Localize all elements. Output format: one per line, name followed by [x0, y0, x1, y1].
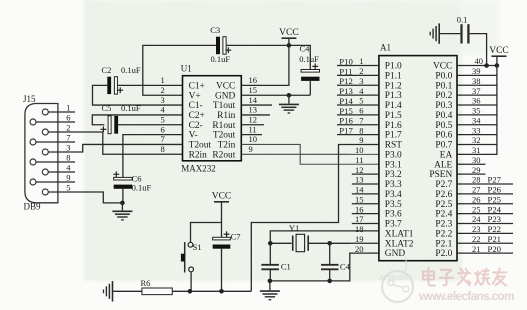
svg-text:7: 7: [359, 115, 363, 125]
svg-text:34: 34: [472, 115, 481, 125]
svg-text:7: 7: [66, 133, 70, 143]
node crystal right: [327, 241, 332, 246]
wire MAX232 pin 11 stub: [241, 134, 262, 136]
svg-text:10: 10: [355, 145, 364, 155]
svg-text:2: 2: [161, 85, 165, 95]
svg-text:P1.4: P1.4: [385, 101, 402, 111]
power VCC (reset): [212, 192, 232, 238]
svg-text:36: 36: [472, 96, 481, 106]
svg-text:5: 5: [359, 96, 363, 106]
node GND junction pin15: [287, 93, 292, 98]
wire T2in (pin10) to P3.1: [241, 144, 379, 164]
svg-text:12: 12: [249, 115, 258, 125]
svg-text:17: 17: [355, 214, 364, 224]
svg-text:P3.3: P3.3: [385, 180, 402, 190]
svg-text:R1out: R1out: [212, 121, 235, 131]
svg-text:14: 14: [249, 95, 258, 105]
svg-text:VCC: VCC: [279, 28, 299, 38]
svg-text:P14: P14: [339, 96, 353, 106]
wire MAX232 pin 12 stub: [241, 124, 264, 126]
svg-text:0.1: 0.1: [457, 15, 468, 25]
svg-text:3: 3: [161, 95, 165, 105]
node crystal left: [268, 241, 273, 246]
svg-text:P17: P17: [339, 126, 353, 136]
pin numbers A1 left: [355, 56, 364, 254]
svg-text:V-: V-: [189, 131, 198, 141]
svg-text:C4: C4: [300, 44, 311, 54]
svg-text:3: 3: [66, 143, 70, 153]
svg-text:C2+: C2+: [189, 111, 205, 121]
node C7 bottom junction: [219, 289, 224, 294]
svg-text:35: 35: [472, 106, 481, 116]
svg-text:21: 21: [472, 244, 481, 254]
svg-text:P15: P15: [339, 106, 353, 116]
svg-text:DB9: DB9: [24, 201, 42, 211]
svg-text:R1in: R1in: [217, 111, 236, 121]
pin numbers MAX232: [161, 75, 258, 154]
svg-text:ALE: ALE: [434, 160, 452, 170]
svg-text:P13: P13: [339, 86, 353, 96]
svg-text:P3.7: P3.7: [385, 220, 402, 230]
svg-text:U1: U1: [181, 63, 192, 73]
svg-text:P2.1: P2.1: [435, 239, 452, 249]
svg-text:PSEN: PSEN: [429, 170, 452, 180]
svg-text:29: 29: [472, 165, 481, 175]
svg-text:XLAT1: XLAT1: [385, 229, 414, 239]
svg-text:T2out: T2out: [189, 141, 212, 151]
wire J15 pin 1: [48, 111, 75, 113]
watermark text: [418, 268, 514, 303]
svg-text:Y1: Y1: [289, 223, 299, 233]
node pin40/cap branch: [484, 63, 489, 68]
svg-text:32: 32: [472, 135, 481, 145]
svg-text:P2.2: P2.2: [435, 229, 452, 239]
capacitor C4 (crystal): [321, 243, 351, 281]
svg-text:P0.6: P0.6: [435, 131, 452, 141]
svg-text:0.1uF: 0.1uF: [299, 54, 319, 64]
svg-text:T1out: T1out: [213, 101, 236, 111]
svg-text:R6: R6: [141, 278, 151, 288]
wire EA to VCC: [457, 66, 497, 155]
svg-text:24: 24: [472, 214, 481, 224]
pin numbers A1 right: [472, 56, 483, 254]
svg-text:P2.0: P2.0: [435, 249, 452, 259]
svg-text:RST: RST: [385, 141, 402, 151]
power VCC (top right): [489, 46, 509, 66]
wire XLAT2 (pin19): [330, 242, 379, 244]
svg-text:P2.3: P2.3: [435, 220, 452, 230]
wire XLAT1 (pin18) frame: [270, 231, 379, 243]
svg-text:26: 26: [472, 194, 481, 204]
svg-text:C4: C4: [340, 262, 351, 272]
ground (crystal): [260, 281, 280, 300]
wire J15 pin 6: [36, 121, 75, 123]
svg-text:37: 37: [472, 86, 481, 96]
svg-text:P3.6: P3.6: [385, 210, 402, 220]
svg-text:15: 15: [249, 85, 258, 95]
connector J15 (DB9): [23, 94, 58, 211]
svg-text:P3.4: P3.4: [385, 190, 402, 200]
capacitor C2 0.1uF (C1+ to C1-): [93, 65, 183, 105]
svg-text:15: 15: [355, 194, 364, 204]
crystal Y1: [270, 223, 329, 252]
svg-text:C3: C3: [210, 25, 220, 35]
wires A1 P2.0-P2.7 with labels P20-P27: [457, 175, 513, 254]
wire A1 VCC pin40: [457, 65, 497, 67]
svg-text:C2: C2: [102, 65, 112, 75]
node S1 bottom junction: [188, 289, 193, 294]
svg-text:20: 20: [355, 244, 364, 254]
svg-text:AT89S5X: AT89S5X: [379, 275, 409, 282]
wire J15 pin 5: [48, 192, 122, 203]
wires A1 P0.0-P0.7 stubs: [457, 75, 497, 144]
svg-text:0.1uF: 0.1uF: [211, 54, 231, 64]
svg-text:P20: P20: [488, 244, 502, 254]
svg-text:S1: S1: [193, 242, 202, 252]
svg-text:P1.0: P1.0: [385, 62, 402, 72]
svg-text:VCC: VCC: [433, 62, 452, 72]
wire J15 pin 7: [36, 141, 75, 143]
svg-text:P0.5: P0.5: [435, 121, 452, 131]
node pin40/VCC corner: [495, 63, 500, 68]
svg-text:T2out: T2out: [213, 131, 236, 141]
svg-text:P0.7: P0.7: [435, 141, 452, 151]
svg-text:P1.5: P1.5: [385, 111, 402, 121]
ground (below pin15): [279, 95, 299, 113]
svg-text:VCC: VCC: [216, 82, 235, 92]
wire J15 pin 4: [48, 171, 75, 173]
svg-text:16: 16: [249, 75, 258, 85]
svg-text:6: 6: [359, 106, 363, 116]
svg-text:P3.5: P3.5: [385, 200, 402, 210]
svg-text:A1: A1: [380, 42, 391, 52]
svg-text:R2out: R2out: [212, 150, 235, 160]
svg-text:9: 9: [66, 173, 70, 183]
svg-text:GND: GND: [385, 249, 406, 259]
svg-text:18: 18: [355, 224, 364, 234]
svg-text:8: 8: [359, 125, 363, 135]
svg-text:1: 1: [66, 103, 70, 113]
svg-text:EA: EA: [440, 150, 453, 160]
svg-text:11: 11: [249, 124, 257, 134]
svg-text:27: 27: [472, 185, 481, 195]
svg-text:C1+: C1+: [189, 82, 205, 92]
power VCC (top middle): [279, 28, 299, 45]
capacitor C3 0.1uF: [210, 25, 289, 64]
svg-text:39: 39: [472, 66, 481, 76]
wire J15 pin 3: [48, 144, 182, 152]
svg-text:40: 40: [475, 56, 484, 66]
svg-text:6: 6: [161, 124, 165, 134]
svg-text:P2.5: P2.5: [435, 200, 452, 210]
svg-text:22: 22: [472, 234, 481, 244]
resistor R6: [113, 278, 252, 295]
svg-text:12: 12: [355, 165, 364, 175]
wire MAX232 GND pin15: [241, 94, 310, 96]
svg-text:8: 8: [66, 153, 70, 163]
svg-text:30: 30: [472, 155, 481, 165]
svg-text:P24: P24: [488, 204, 502, 214]
wire MAX232 pin 14 stub: [241, 104, 272, 106]
svg-text:14: 14: [355, 185, 364, 195]
svg-text:C7: C7: [231, 232, 241, 242]
svg-text:P16: P16: [339, 116, 353, 126]
svg-text:C2-: C2-: [189, 121, 203, 131]
switch S1 (push button): [181, 223, 222, 292]
svg-text:XLAT2: XLAT2: [385, 239, 414, 249]
svg-text:P3.1: P3.1: [385, 160, 402, 170]
svg-text:C1-: C1-: [189, 101, 203, 111]
svg-text:5: 5: [161, 115, 165, 125]
svg-text:V+: V+: [189, 91, 201, 101]
svg-text:P0.4: P0.4: [435, 111, 452, 121]
svg-text:T2in: T2in: [218, 141, 236, 151]
svg-text:9: 9: [249, 144, 253, 154]
node VCC junction on C3 rail: [287, 43, 292, 48]
ground (below C6): [112, 203, 132, 220]
wire R2out (pin9) to P3.0: [241, 153, 379, 155]
capacitor C7: [213, 231, 241, 291]
wire RST net: [251, 144, 379, 291]
svg-text:P23: P23: [488, 214, 502, 224]
svg-text:19: 19: [355, 234, 364, 244]
svg-text:2: 2: [66, 123, 70, 133]
capacitor C4 0.1uF (VCC rail to GND): [289, 44, 320, 96]
svg-text:8: 8: [161, 144, 165, 154]
svg-text:28: 28: [472, 175, 481, 185]
svg-text:25: 25: [472, 204, 481, 214]
svg-text:P2.6: P2.6: [435, 190, 452, 200]
capacitor 0.1 (top right): [439, 15, 486, 66]
svg-text:6: 6: [66, 113, 70, 123]
svg-text:P11: P11: [339, 66, 352, 76]
svg-text:P3.2: P3.2: [385, 170, 402, 180]
wire J15 pin 8: [36, 161, 75, 163]
svg-text:P21: P21: [488, 234, 502, 244]
svg-text:5: 5: [66, 183, 70, 193]
wire MAX232 pin 13 stub: [241, 114, 270, 116]
svg-text:GND: GND: [215, 91, 236, 101]
node C1 bottom: [268, 279, 273, 284]
svg-text:P1.3: P1.3: [385, 91, 402, 101]
svg-text:4: 4: [359, 86, 364, 96]
svg-text:4: 4: [161, 105, 166, 115]
svg-text:1: 1: [359, 56, 363, 66]
svg-text:P1.6: P1.6: [385, 121, 402, 131]
svg-text:0.1uF: 0.1uF: [121, 103, 141, 113]
watermark logo circle: [379, 257, 413, 302]
svg-text:23: 23: [472, 224, 481, 234]
wire V+ (pin2) up to C3 rail: [143, 45, 216, 95]
svg-text:13: 13: [249, 105, 258, 115]
svg-text:1: 1: [161, 75, 165, 85]
wire GND (pin20) rail: [270, 253, 379, 281]
wire V- (pin6) to C6: [123, 135, 183, 178]
wire J15 pin 2: [48, 132, 182, 154]
svg-text:31: 31: [472, 145, 481, 155]
svg-text:C1: C1: [281, 262, 291, 272]
svg-text:P25: P25: [488, 194, 502, 204]
capacitor C6 0.1uF: [113, 171, 151, 203]
svg-text:P0.1: P0.1: [435, 81, 452, 91]
svg-text:P3.0: P3.0: [385, 150, 402, 160]
svg-text:www.elecfans.com: www.elecfans.com: [418, 289, 514, 303]
svg-text:13: 13: [355, 175, 364, 185]
svg-text:R2in: R2in: [189, 150, 208, 160]
svg-text:33: 33: [472, 125, 481, 135]
svg-text:10: 10: [249, 134, 258, 144]
ground (far left, rotated): [112, 281, 114, 301]
svg-text:P0.0: P0.0: [435, 71, 452, 81]
svg-text:P1.1: P1.1: [385, 71, 402, 81]
svg-text:16: 16: [355, 204, 364, 214]
svg-text:2: 2: [359, 66, 363, 76]
svg-text:4: 4: [66, 163, 71, 173]
svg-text:0.1uF: 0.1uF: [121, 65, 141, 75]
capacitor C1: [261, 243, 290, 281]
svg-text:38: 38: [472, 76, 481, 86]
ground (top right, rotated): [438, 23, 440, 43]
wire ALE stub: [457, 163, 485, 165]
svg-text:7: 7: [161, 134, 165, 144]
svg-text:9: 9: [359, 135, 363, 145]
svg-text:3: 3: [359, 76, 363, 86]
wire PSEN stub: [457, 173, 485, 175]
svg-text:11: 11: [355, 155, 363, 165]
svg-text:P12: P12: [339, 76, 353, 86]
svg-text:P10: P10: [339, 57, 353, 67]
svg-text:P1.2: P1.2: [385, 81, 402, 91]
svg-text:P2.4: P2.4: [435, 210, 452, 220]
svg-text:VCC: VCC: [489, 46, 509, 56]
svg-text:P1.7: P1.7: [385, 131, 402, 141]
microcontroller A1: [379, 42, 457, 260]
node C6/J15-5 junction: [120, 201, 125, 206]
svg-text:P26: P26: [488, 185, 502, 195]
svg-text:MAX232: MAX232: [181, 163, 216, 173]
node C4 bottom: [327, 279, 332, 284]
svg-text:P0.3: P0.3: [435, 101, 452, 111]
svg-text:VCC: VCC: [212, 192, 232, 202]
op-amp/transceiver U1 MAX232: [181, 63, 242, 173]
wires A1 P1.0-P1.7 with labels P10-P17: [337, 57, 379, 136]
svg-text:J15: J15: [23, 94, 36, 104]
svg-text:P27: P27: [488, 175, 502, 185]
svg-text:C5: C5: [102, 103, 112, 113]
capacitor C5 0.1uF (C2+ to C2-): [92, 103, 182, 134]
svg-text:P2.7: P2.7: [435, 180, 452, 190]
svg-text:P22: P22: [488, 224, 502, 234]
wire J15 pin 9: [36, 181, 75, 183]
wire MAX232 VCC pin16: [241, 45, 289, 85]
svg-text:P0.2: P0.2: [435, 91, 452, 101]
svg-text:0.1uF: 0.1uF: [132, 183, 152, 193]
wires A1 P3.2-P3.7 stubs: [352, 174, 379, 223]
